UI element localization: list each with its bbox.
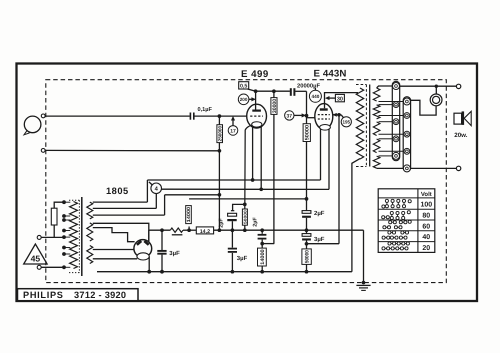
- svg-text:80: 80: [422, 213, 430, 220]
- svg-text:3712 - 3920: 3712 - 3920: [74, 290, 126, 300]
- svg-text:0,5: 0,5: [240, 84, 247, 90]
- svg-text:45: 45: [31, 253, 41, 263]
- svg-text:20: 20: [422, 245, 430, 252]
- svg-text:100: 100: [420, 202, 432, 209]
- svg-text:50000: 50000: [242, 209, 247, 224]
- svg-text:E 443N: E 443N: [314, 69, 347, 80]
- svg-text:3µF: 3µF: [237, 255, 248, 262]
- svg-text:60: 60: [422, 223, 430, 230]
- svg-text:50000: 50000: [305, 125, 311, 140]
- svg-text:200: 200: [240, 97, 248, 102]
- svg-text:20w.: 20w.: [454, 132, 467, 139]
- svg-text:40: 40: [422, 234, 430, 241]
- svg-text:250000: 250000: [217, 126, 222, 142]
- svg-text:50000: 50000: [304, 250, 310, 263]
- svg-text:30: 30: [337, 96, 343, 102]
- svg-text:2µF: 2µF: [253, 217, 259, 227]
- svg-text:195: 195: [343, 120, 351, 125]
- svg-text:440: 440: [311, 94, 319, 99]
- svg-text:17: 17: [230, 128, 236, 134]
- svg-text:1805: 1805: [106, 186, 129, 196]
- svg-text:14,2: 14,2: [200, 229, 210, 235]
- svg-text:3µF: 3µF: [169, 250, 180, 257]
- svg-text:2µF: 2µF: [314, 210, 325, 217]
- svg-text:14000: 14000: [186, 206, 191, 222]
- svg-text:20000µF: 20000µF: [297, 82, 320, 89]
- svg-text:14000: 14000: [260, 249, 266, 265]
- svg-text:30000: 30000: [272, 99, 278, 113]
- svg-text:E 499: E 499: [241, 69, 269, 80]
- svg-text:37: 37: [287, 113, 293, 119]
- svg-text:Volt: Volt: [421, 191, 432, 198]
- svg-text:2µF: 2µF: [219, 218, 225, 228]
- svg-text:PHILIPS: PHILIPS: [23, 290, 64, 300]
- svg-text:3µF: 3µF: [314, 236, 325, 243]
- svg-text:0,1µF: 0,1µF: [198, 107, 213, 113]
